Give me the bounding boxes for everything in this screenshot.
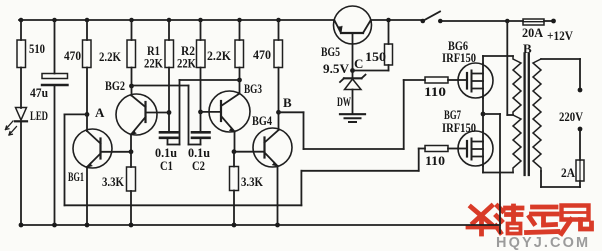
wire BG3C to C1 coupling — [168, 80, 240, 145]
svg-text:B: B — [283, 95, 292, 110]
LED D1 — [15, 108, 27, 226]
label 3.3K a — [102, 174, 125, 189]
svg-text:110: 110 — [425, 153, 445, 168]
label BG7 — [444, 107, 461, 122]
resistor R1 22K — [165, 20, 174, 113]
wire A feedback rise — [300, 171, 302, 206]
wire node B right — [279, 111, 304, 113]
wire BG2C to C2 coupling — [132, 86, 201, 145]
label 20A — [522, 25, 544, 40]
transistor BG2 — [116, 86, 169, 152]
svg-text:BG2: BG2 — [105, 78, 125, 93]
svg-text:HQYJ.COM: HQYJ.COM — [496, 235, 590, 251]
transistor BG5 — [334, 6, 372, 71]
node rail 470a — [85, 18, 90, 23]
transistor BG3 — [201, 80, 251, 152]
wire secondary top to output — [541, 59, 580, 90]
label BG6 — [448, 38, 468, 53]
node bottom BG4 emitter — [275, 223, 280, 228]
label 3.3K b — [241, 174, 264, 189]
label BG2 — [105, 78, 125, 93]
label C — [354, 56, 363, 71]
label 47u — [30, 85, 48, 100]
node bottom LED — [19, 223, 24, 228]
wire top rail to +12V — [544, 20, 554, 22]
node rail 2.2Kb — [237, 18, 242, 23]
wire BG6 gate stub — [404, 79, 425, 81]
wire B to BG6 gate run — [304, 148, 404, 150]
resistor 3.3K b — [230, 152, 239, 225]
svg-text:BG4: BG4 — [252, 113, 272, 128]
resistor 2.2K a — [127, 20, 136, 86]
label DW — [337, 94, 351, 109]
wire node A left — [65, 113, 88, 115]
svg-text:47u: 47u — [30, 85, 48, 100]
node rail center tap — [505, 19, 510, 24]
transformer T1 primary — [513, 56, 521, 173]
capacitor C1 0.1u — [160, 113, 178, 145]
resistor 110 b — [419, 146, 459, 152]
wire secondary bottom — [541, 171, 580, 187]
label BG5 — [321, 44, 340, 59]
label 220V — [559, 109, 584, 124]
label BG3 — [244, 81, 262, 96]
label 510 — [29, 41, 45, 56]
label B transformer — [523, 41, 532, 56]
fuse 2A — [576, 129, 584, 187]
capacitor C2 0.1u — [192, 112, 210, 145]
svg-text:B: B — [523, 41, 532, 56]
node C — [350, 68, 355, 73]
wire node C to 150 — [353, 65, 389, 71]
label C2 — [192, 158, 205, 173]
node rail R1 — [167, 18, 172, 23]
wire B down — [303, 112, 305, 149]
label 9.5V — [323, 61, 350, 76]
wire top rail left — [19, 19, 334, 21]
label R1 22K — [144, 56, 164, 71]
node source bus — [481, 112, 486, 117]
node rail 2.2Ka — [129, 18, 134, 23]
label R1 — [147, 43, 160, 58]
label C2 0.1u — [188, 146, 210, 160]
label 110 a — [424, 84, 446, 99]
svg-text:BG1: BG1 — [68, 169, 84, 184]
label C1 0.1u — [155, 146, 177, 160]
svg-text:22K: 22K — [177, 56, 197, 71]
transistor BG4 — [234, 112, 292, 225]
label BG4 — [252, 113, 272, 128]
node +12V terminal — [551, 19, 556, 24]
wire bottom rail — [21, 224, 500, 226]
label C1 — [160, 158, 173, 173]
svg-text:150: 150 — [365, 49, 386, 64]
node rail R2 — [198, 18, 203, 23]
svg-text:C: C — [354, 56, 363, 71]
label B — [283, 95, 292, 110]
resistor 110 a — [425, 77, 459, 83]
wire center tap drop — [507, 21, 513, 115]
label 470 a — [64, 48, 81, 63]
label A — [95, 105, 105, 120]
wire A feedback mid — [301, 170, 418, 172]
label 110 b — [425, 153, 445, 168]
capacitor 47u — [42, 20, 68, 225]
label LED — [30, 109, 48, 123]
label BG1 — [68, 169, 84, 184]
resistor 2.2K b — [235, 20, 244, 80]
svg-text:IRF150: IRF150 — [442, 121, 476, 135]
svg-text:BG3: BG3 — [244, 81, 262, 96]
svg-text:BG7: BG7 — [444, 107, 461, 122]
svg-text:470: 470 — [253, 47, 271, 62]
node BG3 collector junction — [237, 78, 242, 83]
resistor 3.3K a — [127, 152, 136, 225]
svg-text:20A: 20A — [522, 25, 544, 40]
wire top rail mid — [371, 19, 423, 21]
node output bottom — [578, 127, 583, 132]
svg-text:110: 110 — [424, 84, 446, 99]
svg-text:C2: C2 — [192, 158, 205, 173]
resistor 470 a — [83, 20, 92, 114]
svg-text:2.2K: 2.2K — [99, 49, 122, 64]
svg-text:3.3K: 3.3K — [102, 174, 125, 189]
label IRF150 b — [442, 121, 476, 135]
resistor 470 b — [274, 20, 283, 112]
node BG3 base junction — [198, 110, 203, 115]
node BG2 base junction — [167, 110, 172, 115]
node rail 47u — [52, 18, 57, 23]
label +12V — [547, 28, 574, 43]
label 470 b — [253, 47, 271, 62]
ground — [340, 114, 365, 122]
label 2.2K b — [207, 48, 232, 63]
node BG4 base junction — [232, 149, 237, 154]
transistor BG1 — [73, 114, 131, 225]
svg-text:220V: 220V — [559, 109, 584, 124]
node bottom BG1 emitter — [85, 223, 90, 228]
node A — [85, 112, 90, 117]
node output top — [578, 88, 583, 93]
wire top rail right — [440, 20, 523, 22]
label R2 22K — [177, 56, 197, 71]
label R2 — [181, 43, 195, 58]
svg-text:+12V: +12V — [547, 28, 574, 43]
mosfet BG7 IRF150 — [458, 131, 513, 173]
transformer core — [525, 54, 529, 175]
transformer secondary — [533, 59, 541, 171]
resistor R2 22K — [197, 20, 206, 112]
svg-text:2.2K: 2.2K — [207, 48, 232, 63]
watermark 华清远见 — [468, 206, 592, 235]
svg-text:IRF150: IRF150 — [442, 51, 476, 65]
svg-text:3.3K: 3.3K — [241, 174, 264, 189]
node bottom 3.3Ka — [129, 223, 134, 228]
wire A down left column — [64, 114, 66, 205]
LED arrows — [6, 121, 17, 135]
zener DW — [340, 71, 366, 114]
svg-text:A: A — [95, 105, 105, 120]
resistor 150 — [385, 20, 393, 65]
watermark HQYJ.COM — [496, 235, 590, 251]
wire source bus to negative — [483, 114, 500, 233]
node top-left corner — [19, 18, 24, 23]
node rail 150 — [386, 18, 391, 23]
wire A feedback up to BG7 gate — [418, 149, 420, 171]
mosfet BG6 IRF150 — [458, 56, 513, 132]
switch S — [421, 12, 443, 24]
label 2A — [561, 165, 576, 180]
resistor 510 — [17, 20, 26, 108]
wire B rise to BG6 gate — [403, 80, 405, 149]
svg-text:510: 510 — [29, 41, 45, 56]
node rail 470b — [276, 18, 281, 23]
label 150 — [365, 49, 386, 64]
svg-text:DW: DW — [337, 94, 351, 109]
node BG1 base junction — [129, 149, 134, 154]
label IRF150 a — [442, 51, 476, 65]
node B — [276, 110, 281, 115]
svg-text:22K: 22K — [144, 56, 164, 71]
node BG2 collector junction — [129, 84, 134, 89]
node bottom 47u — [52, 223, 57, 228]
svg-text:2A: 2A — [561, 165, 576, 180]
svg-text:C1: C1 — [160, 158, 173, 173]
wire A feedback bottom — [65, 204, 302, 206]
svg-text:470: 470 — [64, 48, 81, 63]
label 2.2K a — [99, 49, 122, 64]
svg-text:LED: LED — [30, 109, 48, 123]
node bottom 3.3Kb — [232, 223, 237, 228]
fuse 20A — [523, 19, 544, 25]
svg-text:BG5: BG5 — [321, 44, 340, 59]
svg-text:9.5V: 9.5V — [323, 61, 350, 76]
